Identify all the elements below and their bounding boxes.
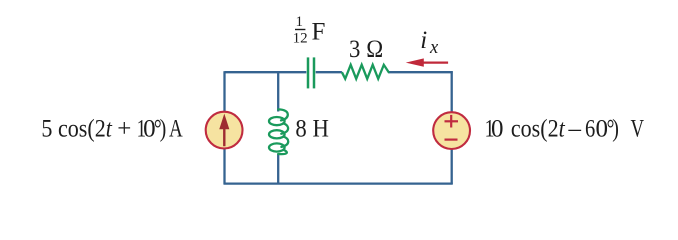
svg-text:6: 6 (585, 115, 595, 142)
voltage source plus sign (445, 115, 459, 128)
capacitor C (green plates) (308, 57, 314, 88)
current source arrow (points up) (219, 114, 229, 147)
svg-text:12: 12 (293, 30, 308, 46)
wire middle branch upper (top rail to inductor top) (277, 71, 279, 111)
wire top rail middle segment (capacitor right plate to resistor) (316, 71, 342, 73)
current ix arrow (points left) (406, 58, 448, 66)
svg-text:5 cos(2t: 5 cos(2t (41, 115, 113, 143)
svg-text:0: 0 (491, 116, 504, 143)
svg-text:x: x (429, 38, 439, 58)
current ix label (420, 27, 439, 58)
voltage source V1 circle (433, 112, 470, 149)
svg-text:): ) (160, 114, 167, 142)
svg-text:+: + (117, 116, 131, 143)
wire top rail left segment (top-left corner to capacitor left plate) (225, 71, 307, 73)
svg-text:): ) (612, 114, 619, 142)
svg-text:i: i (420, 27, 427, 54)
resistor value label 3 Ohm (349, 36, 384, 63)
current source I1 circle (206, 112, 243, 149)
wire middle branch lower (inductor bottom to bottom rail) (277, 154, 279, 184)
svg-text:–: – (568, 116, 582, 143)
wire bottom rail (224, 182, 453, 184)
wire right branch lower (voltage source to bottom rail) (451, 149, 453, 184)
current source label 5 cos(2t + 10 deg) A (41, 114, 182, 143)
wire top rail right segment (resistor to top-right corner) (389, 71, 453, 73)
svg-text:3 Ω: 3 Ω (349, 36, 384, 63)
svg-text:F: F (312, 19, 326, 46)
svg-text:cos(2t: cos(2t (511, 115, 566, 143)
wire right branch upper (top-right corner down to voltage source) (451, 71, 453, 112)
wire left branch lower (current source to bottom rail) (223, 149, 225, 184)
svg-text:V: V (631, 114, 645, 142)
voltage source label 10 cos(2t - 60 deg) V (485, 114, 645, 143)
inductor L 8 H (green coil of three loops) (269, 109, 288, 154)
svg-text:8 H: 8 H (295, 116, 328, 143)
svg-text:A: A (169, 114, 183, 142)
resistor R 3 Ohm (green zigzag) (342, 65, 389, 79)
svg-text:1: 1 (296, 14, 304, 30)
inductor value label 8 H (295, 116, 328, 143)
voltage source minus sign (445, 139, 458, 141)
wire left branch upper (top-left corner down to current source) (223, 71, 225, 111)
capacitor value label 1/12 F (293, 14, 326, 47)
